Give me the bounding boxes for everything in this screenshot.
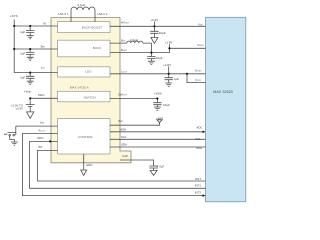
arrow ADC — [203, 131, 206, 134]
ground C6 — [165, 83, 172, 86]
wire MON to ADC — [110, 131, 204, 133]
wire CAP pin — [120, 160, 154, 166]
svg-text:HVLX 2: HVLX 2 — [98, 12, 108, 16]
capacitor C2 1uF — [26, 49, 34, 57]
svg-text:+BAT: +BAT — [156, 116, 164, 120]
node vrtc branch — [186, 73, 188, 75]
svg-text:INT: INT — [38, 145, 43, 149]
svg-text:1µF: 1µF — [20, 30, 25, 34]
svg-text:HVLX 1: HVLX 1 — [59, 12, 69, 16]
wire BOUT — [110, 48, 169, 52]
svg-text:4.7µH: 4.7µH — [77, 3, 85, 7]
PMIC MAX14720 yellow block — [51, 18, 131, 163]
capacitor C5 10uF — [147, 53, 155, 62]
wire row3 — [14, 72, 57, 74]
block BUCK — [58, 40, 111, 57]
block CONTROL — [58, 119, 111, 154]
stub +1.8V ldo — [168, 66, 170, 73]
wire L2 to node — [143, 43, 152, 53]
MCU MAX32620 blue block — [206, 17, 246, 202]
svg-text:+VSW: +VSW — [154, 92, 162, 96]
block LDO — [58, 67, 111, 77]
svg-text:INT1: INT1 — [195, 183, 202, 187]
svg-text:+3.6V: +3.6V — [15, 107, 23, 111]
wire MON-L route — [30, 141, 206, 188]
svg-text:10µF: 10µF — [163, 103, 170, 107]
wire LDO rail — [110, 73, 206, 75]
wire row2 — [14, 48, 57, 50]
ground C3 — [27, 81, 34, 84]
svg-text:1µF: 1µF — [20, 52, 25, 56]
node +1.8V buck — [168, 47, 170, 49]
svg-text:1µF: 1µF — [20, 76, 25, 80]
wire SWIN row — [30, 97, 57, 99]
block BUCK-BOOST — [58, 22, 111, 33]
ground C7 — [154, 107, 161, 110]
wire left bus — [13, 26, 15, 73]
svg-text:+1.8V: +1.8V — [163, 63, 171, 67]
node buck out — [150, 52, 152, 54]
wire +SYS stub — [13, 20, 15, 27]
svg-text:IN: IN — [43, 22, 46, 26]
wire SCL — [110, 138, 206, 140]
wire VRTC branch — [187, 74, 206, 83]
ground C5 — [148, 61, 155, 64]
node sw cap — [156, 97, 158, 99]
svg-text:MPC: MPC — [37, 136, 43, 140]
capacitor C7 10uF — [153, 99, 161, 108]
svg-text:RST: RST — [195, 177, 201, 181]
capacitor C8 4.7uF — [149, 166, 157, 170]
ground GND pin — [83, 154, 85, 170]
wire BLX — [110, 42, 127, 44]
ground C4 triangle — [151, 38, 158, 44]
svg-text:INT2: INT2 — [195, 191, 202, 195]
node row3 junction — [29, 72, 31, 74]
svg-text:SWITCH: SWITCH — [84, 95, 96, 99]
svg-text:BUCK-BOOST: BUCK-BOOST — [82, 25, 103, 29]
svg-text:CONTROL: CONTROL — [78, 135, 93, 139]
svg-text:4.7µF: 4.7µF — [157, 164, 165, 168]
ground C8 triangle — [150, 170, 157, 175]
capacitor C1 1uF — [26, 26, 34, 36]
svg-text:SDA: SDA — [121, 143, 127, 147]
wire KIN to button — [16, 125, 58, 127]
node +SYS junction — [13, 25, 15, 27]
svg-text:SCL: SCL — [195, 137, 201, 141]
inductor L1 coil — [71, 7, 95, 10]
svg-text:1µF: 1µF — [174, 77, 179, 81]
pushbutton S1 — [4, 126, 16, 142]
wire SDA — [110, 146, 206, 148]
capacitor C3 1uF — [26, 73, 34, 82]
block SWITCH — [58, 91, 111, 102]
symbol +BAT tap triangle — [157, 120, 162, 123]
svg-text:MAX 32620: MAX 32620 — [213, 90, 233, 94]
svg-text:BUCK: BUCK — [93, 46, 103, 50]
wire to VDDB — [169, 47, 205, 49]
svg-text:CAP: CAP — [122, 154, 128, 158]
node battery junction — [29, 97, 31, 99]
ground button — [11, 142, 18, 145]
node +3.3V — [153, 25, 155, 27]
svg-text:ADC: ADC — [196, 126, 202, 130]
svg-text:10µF: 10µF — [159, 31, 166, 35]
wire PFN1 route — [22, 134, 205, 196]
capacitor C6 1uF — [165, 74, 173, 83]
svg-text:10µF: 10µF — [156, 56, 163, 60]
svg-text:SDA: SDA — [196, 146, 202, 150]
arrow bottom pin — [203, 194, 206, 197]
stub +1.8V buck — [168, 44, 170, 48]
svg-text:SCL: SCL — [121, 135, 127, 139]
inductor L2 2.2uH — [127, 41, 143, 43]
node ldo cap — [168, 73, 170, 75]
svg-text:MON: MON — [120, 128, 127, 132]
wire RST route — [38, 150, 206, 181]
inductor L1 4.7uH legs — [71, 10, 95, 22]
svg-text:GND: GND — [86, 163, 92, 167]
wire row1 IN — [14, 25, 57, 27]
ground C1 — [27, 36, 34, 39]
wire SWOUT — [110, 98, 157, 100]
svg-text:+1.8V: +1.8V — [165, 41, 173, 45]
svg-text:+3.3V: +3.3V — [150, 18, 158, 22]
wire HVOUT rail — [110, 25, 206, 27]
stub +3.3V — [153, 22, 155, 27]
svg-text:MAX 14720 A: MAX 14720 A — [70, 86, 90, 90]
battery BT1 — [26, 98, 35, 112]
svg-text:+SYS: +SYS — [10, 14, 18, 18]
ground battery triangle — [27, 112, 34, 119]
capacitor C4 10uF — [150, 26, 158, 37]
svg-text:LDO: LDO — [85, 70, 92, 74]
ground C2 — [27, 57, 34, 60]
node MON edge — [49, 140, 51, 142]
svg-text:2.2µH: 2.2µH — [130, 38, 138, 42]
node row2 junction — [13, 48, 15, 50]
wire BAT tap — [110, 123, 160, 126]
